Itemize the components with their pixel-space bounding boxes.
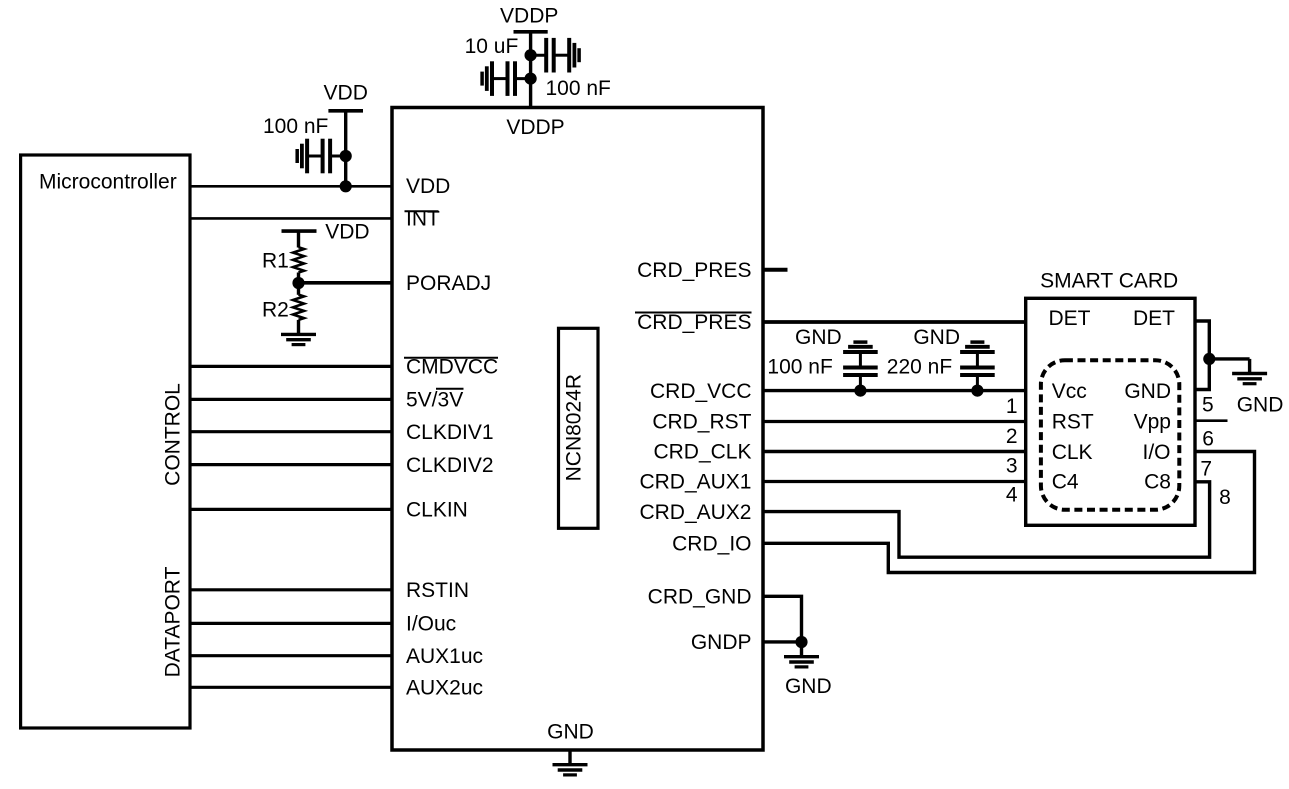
svg-text:CONTROL: CONTROL	[161, 383, 184, 486]
svg-text:8: 8	[1219, 486, 1231, 509]
svg-text:DET: DET	[1133, 307, 1175, 330]
svg-text:SMART CARD: SMART CARD	[1040, 270, 1178, 293]
junction dot VDD wire	[340, 180, 352, 192]
svg-text:3: 3	[1006, 454, 1018, 477]
wire AUX1uc	[190, 654, 392, 657]
svg-text:VDDP: VDDP	[506, 116, 564, 139]
svg-text:CRD_GND: CRD_GND	[648, 586, 752, 609]
wire CRD_CLK to pin 3	[763, 450, 1026, 453]
svg-text:R1: R1	[262, 250, 289, 273]
smart card contact pad dashed outline	[1041, 360, 1179, 510]
junction dot GNDP	[795, 636, 807, 648]
svg-text:CRD_CLK: CRD_CLK	[653, 441, 751, 464]
svg-text:VDD: VDD	[406, 175, 450, 198]
power VDDP tap bar top	[514, 30, 548, 34]
wire CRD_PRES to smart card DET	[763, 320, 1026, 324]
wire VDDP vertical	[529, 32, 532, 108]
svg-text:Microcontroller: Microcontroller	[39, 171, 177, 194]
svg-text:GND: GND	[913, 326, 960, 349]
svg-text:10 uF: 10 uF	[465, 35, 519, 58]
svg-text:GND: GND	[1237, 394, 1284, 417]
wire DET to GND pin 5 loop	[1195, 321, 1209, 390]
svg-text:CLKDIV1: CLKDIV1	[406, 421, 494, 444]
wire VDD tap vertical	[344, 111, 347, 187]
svg-text:GNDP: GNDP	[691, 631, 752, 654]
svg-text:6: 6	[1202, 427, 1214, 450]
wire CLKIN	[190, 508, 392, 511]
svg-text:R2: R2	[262, 298, 289, 321]
svg-text:I/Ouc: I/Ouc	[406, 613, 456, 636]
wire INT	[190, 217, 392, 220]
wire CRD_AUX2 routed to pin 8	[763, 482, 1210, 557]
junction dot VDD cap	[340, 150, 352, 162]
junction dot 100nF VDDP	[525, 73, 537, 85]
svg-text:RSTIN: RSTIN	[406, 579, 469, 602]
capacitor 100 nF at VDD	[297, 139, 346, 174]
svg-text:CRD_PRES: CRD_PRES	[637, 311, 751, 334]
svg-text:CRD_RST: CRD_RST	[652, 411, 751, 434]
wire PORADJ from divider to IC	[299, 281, 393, 285]
svg-text:100 nF: 100 nF	[546, 77, 611, 100]
svg-text:CRD_PRES: CRD_PRES	[637, 259, 751, 282]
svg-text:NCN8024R: NCN8024R	[562, 374, 585, 481]
svg-text:GND: GND	[1124, 380, 1171, 403]
svg-text:C8: C8	[1144, 470, 1171, 493]
svg-text:CRD_AUX1: CRD_AUX1	[639, 471, 751, 494]
svg-text:Vpp: Vpp	[1134, 411, 1171, 434]
svg-text:VDDP: VDDP	[500, 4, 558, 27]
resistor R1	[293, 247, 304, 272]
wire R2 to ground	[297, 320, 300, 334]
wire DET junction to ground	[1209, 357, 1249, 360]
svg-text:5: 5	[1202, 393, 1214, 416]
svg-text:CRD_IO: CRD_IO	[672, 533, 751, 556]
svg-text:CRD_AUX2: CRD_AUX2	[639, 501, 751, 524]
wire CLKDIV1	[190, 430, 392, 433]
resistor R2	[293, 295, 304, 320]
wire CRD_VCC to smart card Vcc pin 1	[763, 389, 1026, 392]
svg-text:CLKIN: CLKIN	[406, 499, 468, 522]
wire RSTIN	[190, 588, 392, 591]
svg-text:GND: GND	[785, 675, 832, 698]
junction dot cap 100nF	[854, 385, 866, 397]
svg-text:2: 2	[1006, 425, 1018, 448]
wire 5V/3V	[190, 398, 392, 401]
svg-text:CLKDIV2: CLKDIV2	[406, 454, 494, 477]
svg-text:AUX2uc: AUX2uc	[406, 677, 483, 700]
svg-text:1: 1	[1006, 395, 1018, 418]
wire I/Ouc	[190, 622, 392, 625]
wire CRD_AUX1 to pin 4	[763, 480, 1026, 483]
junction dot cap 220nF	[971, 385, 983, 397]
svg-text:100 nF: 100 nF	[263, 115, 328, 138]
wire AUX2uc	[190, 686, 392, 689]
wire VDD bar to R1	[297, 231, 300, 247]
ground below R2	[281, 334, 316, 344]
svg-text:4: 4	[1006, 483, 1018, 506]
wire CRD_RST to pin 2	[763, 420, 1026, 423]
capacitor 100 nF at VDDP	[482, 61, 531, 96]
svg-text:I/O: I/O	[1142, 441, 1170, 464]
svg-text:DATAPORT: DATAPORT	[161, 566, 184, 677]
svg-text:220 nF: 220 nF	[887, 356, 952, 379]
svg-text:PORADJ: PORADJ	[406, 272, 491, 295]
wire Vpp pin 6 stub	[1196, 419, 1228, 422]
svg-text:GND: GND	[547, 721, 594, 744]
junction dot 10uF	[525, 49, 537, 61]
svg-text:VDD: VDD	[324, 81, 368, 104]
ground at smart card DET	[1232, 374, 1267, 384]
wire R1 to junction	[297, 273, 300, 295]
ground below IC GND pin	[568, 750, 571, 765]
svg-text:AUX1uc: AUX1uc	[406, 645, 483, 668]
svg-text:DET: DET	[1049, 307, 1091, 330]
svg-text:100 nF: 100 nF	[767, 356, 832, 379]
svg-text:RST: RST	[1052, 411, 1094, 434]
ground GNDP	[784, 657, 819, 667]
svg-text:Vcc: Vcc	[1052, 380, 1087, 403]
wire CRD_IO routed to pin 7	[763, 452, 1255, 573]
wire CLKDIV2	[190, 463, 392, 466]
junction dot PORADJ divider	[292, 277, 304, 289]
wire GNDP to ground	[800, 642, 803, 657]
wire CRD_GND down to GNDP node	[763, 596, 802, 642]
IC name box	[559, 328, 599, 528]
svg-text:C4: C4	[1052, 470, 1079, 493]
svg-text:CLK: CLK	[1052, 441, 1093, 464]
capacitor 10 uF at VDDP	[531, 38, 580, 73]
capacitor 220 nF at CRD_VCC	[960, 342, 995, 391]
IC U1 NCN8024R block	[392, 108, 763, 751]
microcontroller block	[21, 155, 190, 728]
svg-text:CMDVCC: CMDVCC	[406, 356, 498, 379]
power VDD tap bar near microcontroller	[328, 109, 363, 113]
capacitor 100 nF at CRD_VCC	[843, 342, 878, 391]
svg-text:VDD: VDD	[325, 221, 369, 244]
wire CRD_PRES stub	[763, 268, 788, 272]
wire GNDP stub	[763, 640, 802, 643]
svg-text:5V/3V: 5V/3V	[406, 389, 463, 412]
svg-text:CRD_VCC: CRD_VCC	[650, 380, 752, 403]
wire VDD from microcontroller to IC	[190, 185, 392, 188]
svg-text:GND: GND	[795, 326, 842, 349]
power VDD tap bar at R divider	[282, 229, 317, 233]
smart card block	[1026, 298, 1195, 525]
svg-text:7: 7	[1200, 457, 1212, 480]
wire CMDVCC	[190, 365, 392, 368]
junction dot DET ground	[1203, 353, 1215, 365]
